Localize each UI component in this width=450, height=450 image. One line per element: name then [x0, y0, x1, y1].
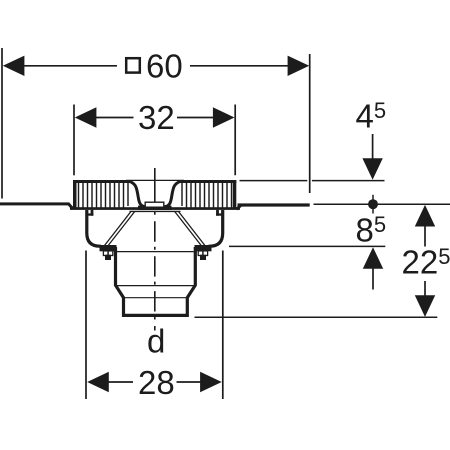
- bell rim clamp right: [195, 245, 212, 251]
- dimension 60: dimension line right segment: [190, 65, 289, 67]
- grate dip profile: [130, 182, 181, 207]
- dimension 28: right arrowhead: [200, 372, 222, 392]
- hook left under flange: bar: [87, 213, 94, 215]
- housing left wall and bottom: [87, 210, 101, 246]
- hook left under flange: lip: [91, 210, 94, 216]
- grate hatching right block: [182, 183, 232, 208]
- dimension 4.5: arrow stem: [372, 134, 374, 160]
- housing right wall and bottom: [209, 210, 223, 246]
- svg-text:45: 45: [356, 98, 387, 135]
- dimension 28: dimension line right segment: [177, 381, 204, 383]
- bell inner wall right: [175, 211, 202, 245]
- floor reference tick: [372, 195, 374, 214]
- dimension 28: right extension line: [222, 251, 224, 400]
- bell inner wall left: [108, 211, 135, 245]
- screw left: tip: [106, 255, 111, 259]
- dimension 22.5: up arrowhead: [415, 205, 435, 227]
- floor line left: [0, 202, 70, 205]
- dimension 4.5: extension line from grate top, left part: [240, 180, 308, 182]
- dimension 28: left extension line: [85, 251, 87, 400]
- svg-text:28: 28: [138, 364, 175, 401]
- dimension 32: right arrowhead: [213, 107, 235, 127]
- screw right: tip: [201, 255, 206, 259]
- bell outer wall left: [105, 211, 131, 245]
- screw left: head split: [107, 251, 109, 256]
- dimension 28: left arrowhead: [87, 372, 109, 392]
- trap cup outline: [116, 247, 196, 315]
- bell rim clamp left: [100, 245, 117, 251]
- dimension 32: left arrowhead: [75, 107, 97, 127]
- floor step right: [237, 205, 242, 210]
- svg-text:60: 60: [146, 48, 183, 85]
- dimension 4.5: down arrowhead: [362, 158, 382, 180]
- dimension 32: right extension line: [234, 105, 236, 176]
- floor step left: [69, 204, 74, 209]
- hook right under flange: bar: [216, 213, 223, 215]
- svg-text:32: 32: [138, 99, 175, 136]
- dimension 28: dimension line left segment: [106, 381, 133, 383]
- dimension 32: left extension line: [73, 105, 75, 176]
- dimension 60: square symbol: [126, 58, 140, 72]
- cup chamfer top line: [117, 285, 194, 287]
- dimension 8.5: arrow stem: [372, 268, 374, 290]
- floor reference line right: [314, 203, 450, 205]
- screw right: head split: [202, 251, 204, 256]
- dimension 22.5: upper stem: [424, 226, 426, 247]
- dimension 4.5: extension line from grate top, right part: [312, 180, 385, 182]
- dimension 22.5: lower stem: [424, 281, 426, 297]
- svg-text:85: 85: [356, 211, 387, 248]
- grate top bar left: [73, 180, 130, 183]
- bell outer wall right: [178, 211, 204, 245]
- grate dip bottom bar: [138, 206, 172, 210]
- screw left: head: [103, 251, 112, 256]
- dimension 22.5: bottom extension line: [195, 316, 438, 318]
- svg-text:d: d: [147, 323, 165, 360]
- cup chamfer bottom line: [124, 297, 188, 299]
- dimension 60: left extension line: [1, 48, 3, 199]
- hook right under flange: lip: [216, 210, 219, 216]
- dimension 32: dimension line right segment: [177, 117, 216, 119]
- grate top thin line across dip: [126, 179, 184, 181]
- floor line right: [238, 203, 310, 206]
- grate left edge: [73, 180, 77, 210]
- center line dash-dot part: [154, 212, 156, 331]
- screw right: head: [198, 251, 207, 256]
- grate flange bottom: [70, 207, 240, 210]
- dimension 60: right arrowhead: [288, 56, 310, 76]
- floor reference dot: [368, 199, 378, 209]
- grate top bar right: [180, 180, 236, 183]
- svg-text:225: 225: [402, 244, 450, 281]
- dimension 60: right extension line: [309, 54, 311, 193]
- dimension 32: dimension line left segment: [94, 117, 134, 119]
- dimension 8.5: up arrowhead: [363, 247, 383, 269]
- grate key rect: [145, 202, 164, 207]
- bell top line: [130, 210, 181, 212]
- dimension 22.5: down arrowhead: [415, 295, 435, 317]
- grate right edge: [233, 180, 237, 210]
- grate hatching left block: [79, 183, 129, 208]
- cup seam line: [117, 251, 194, 253]
- dimension 60: dimension line left segment: [22, 65, 117, 67]
- center line solid upper part: [154, 168, 156, 210]
- dimension 60: left arrowhead: [3, 56, 25, 76]
- dimension 8.5: extension line: [229, 245, 385, 247]
